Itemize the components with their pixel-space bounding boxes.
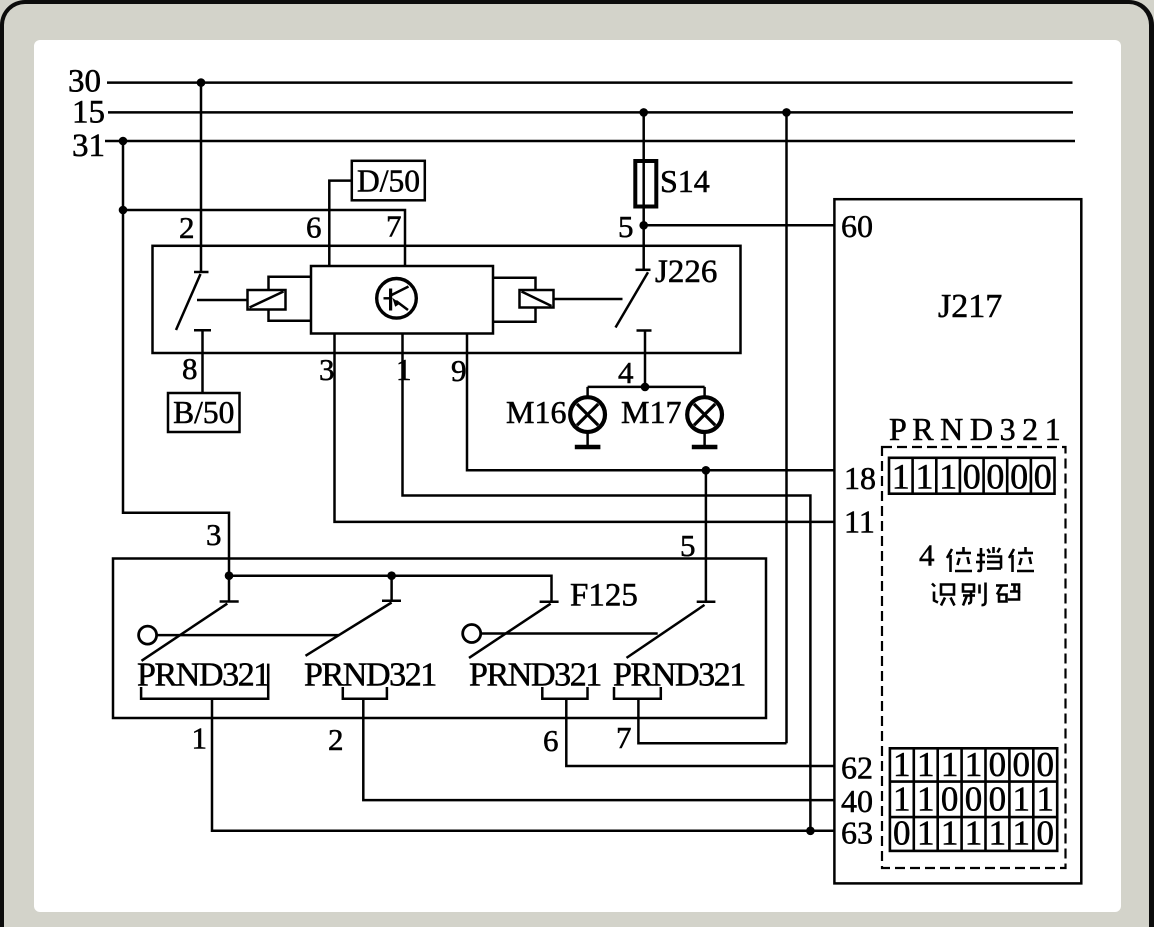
lamp feed wire: [588, 386, 705, 389]
relay box J226: [153, 246, 741, 353]
J217 pin 40 label: [841, 783, 873, 819]
selector switch 3: [463, 602, 658, 658]
node 15 label: [72, 95, 105, 131]
svg-text:P R N D 3 2 1: P R N D 3 2 1: [889, 411, 1060, 447]
svg-text:7: 7: [616, 720, 632, 755]
svg-text:J226: J226: [655, 254, 717, 290]
F125 common top wire: [229, 576, 552, 602]
right switch lever: [616, 272, 649, 327]
svg-text:1: 1: [941, 745, 959, 784]
F125 pin1 label: [192, 721, 208, 756]
wire D/50 to J226 pin6: [329, 181, 352, 266]
node 30 label: [68, 64, 101, 100]
selector switch 4: [627, 602, 716, 658]
junction node at y210: [119, 206, 128, 215]
pin 3 label: [319, 352, 335, 387]
junction sw2 top: [387, 571, 396, 580]
bit table rows 62/40/63: [890, 748, 1057, 851]
fuse S14: [635, 161, 656, 207]
svg-text:9: 9: [451, 353, 467, 388]
junction lamps feed: [641, 383, 650, 392]
svg-text:PRND321: PRND321: [469, 657, 601, 694]
F125 pin2 wire to J217 pin40: [363, 699, 834, 800]
F125 pin1 wire to J217 pin63: [212, 699, 834, 831]
lamp M16: [570, 387, 605, 445]
position bracket 2: [343, 687, 387, 699]
svg-text:B/50: B/50: [173, 395, 234, 430]
bit values row 40: [893, 780, 1054, 819]
wire ground to J226 pin7: [123, 210, 405, 266]
svg-text:6: 6: [306, 210, 322, 245]
svg-text:F125: F125: [570, 578, 638, 614]
svg-text:0: 0: [989, 745, 1007, 784]
left switch contact top: [194, 271, 209, 274]
svg-text:4: 4: [919, 538, 935, 573]
svg-text:8: 8: [182, 351, 198, 386]
wire pin9 to J217 pin18: [467, 334, 834, 471]
bit values row 18: [892, 457, 1052, 497]
svg-text:1: 1: [941, 814, 959, 853]
junction on bus 31: [119, 137, 128, 146]
svg-text:4: 4: [618, 355, 634, 390]
svg-text:6: 6: [543, 723, 559, 758]
svg-text:1: 1: [893, 745, 911, 784]
bus wire 31: [105, 140, 1075, 143]
wire pin4 to lamps: [644, 331, 647, 387]
dashed code block: [882, 447, 1066, 868]
PRND321 label 4: [613, 657, 745, 694]
relay coil right: [520, 290, 554, 308]
svg-text:2: 2: [179, 210, 195, 245]
coil right connection bracket: [493, 278, 536, 322]
position bracket 1: [141, 664, 268, 699]
control unit J217 box: [834, 199, 1081, 883]
node 31 label: [72, 128, 105, 164]
selector switch 1: [139, 576, 340, 661]
hanzi wei1: [947, 547, 972, 572]
relay coil left: [248, 290, 286, 310]
svg-text:1: 1: [965, 745, 983, 784]
svg-text:1: 1: [939, 457, 957, 497]
svg-text:PRND321: PRND321: [613, 657, 745, 694]
svg-text:3: 3: [319, 352, 335, 387]
J217 pin 63 label: [841, 815, 873, 851]
svg-text:5: 5: [618, 209, 634, 244]
junction on bus 15 at S14: [639, 108, 648, 117]
pin 7 label: [386, 209, 402, 244]
svg-text:PRND321: PRND321: [304, 657, 436, 694]
F125 pin6 wire to J217 pin62: [566, 699, 834, 766]
bus wire 15: [108, 111, 1073, 114]
gear code caption line 1: 4: [919, 538, 935, 573]
svg-text:62: 62: [841, 750, 873, 786]
connector B/50: [168, 393, 240, 432]
wire node to F125 pin5: [705, 470, 708, 602]
svg-text:1: 1: [1013, 814, 1031, 853]
left switch contact bottom: [194, 329, 211, 332]
F125 pin6 label: [543, 723, 559, 758]
svg-text:60: 60: [841, 208, 873, 244]
J217 pin 60 label: [841, 208, 873, 244]
gear header P R N D 3 2 1: [889, 411, 1060, 447]
right switch contact top: [636, 269, 651, 272]
hanzi ma3: [996, 585, 1019, 602]
hanzi bie2: [963, 583, 986, 606]
pin 6 label: [306, 210, 322, 245]
right switch actuating wire: [554, 298, 623, 301]
svg-text:0: 0: [986, 457, 1004, 497]
svg-text:0: 0: [1010, 457, 1028, 497]
pin 9 label: [451, 353, 467, 388]
J217 pin 18 label: [844, 460, 876, 496]
wire bus31 down left side: [123, 141, 229, 576]
J217 label: [938, 288, 1002, 325]
wire pin3 to J217 pin11: [335, 334, 835, 522]
svg-text:1: 1: [917, 814, 935, 853]
svg-text:J217: J217: [938, 288, 1002, 325]
PRND321 label 1: [137, 657, 269, 694]
M17 label: [621, 394, 681, 430]
selector switch 2: [306, 576, 402, 656]
wire pin5 to J217 pin60: [644, 224, 835, 227]
F125 pin5 label: [680, 528, 696, 563]
PRND321 label 3: [469, 657, 601, 694]
position bracket 4: [614, 687, 661, 699]
svg-text:D/50: D/50: [357, 164, 420, 199]
left switch actuating wire: [197, 299, 248, 302]
svg-text:2: 2: [328, 722, 344, 757]
svg-text:1: 1: [965, 814, 983, 853]
connector D/50: [352, 161, 425, 201]
S14 label: [660, 163, 710, 199]
M16 label: [506, 394, 566, 430]
J226 label: [655, 254, 717, 290]
control unit inner box: [311, 266, 493, 334]
junction pin5/60: [639, 221, 648, 230]
F125 pin3 label: [206, 517, 222, 552]
svg-text:63: 63: [841, 815, 873, 851]
lamp M17: [687, 387, 722, 445]
bit table row 18: [889, 458, 1055, 494]
F125 label: [570, 578, 638, 614]
svg-text:0: 0: [1013, 745, 1031, 784]
left switch lever: [176, 274, 201, 330]
svg-text:0: 0: [893, 814, 911, 853]
junction pin18 wire / F125 pin5: [702, 466, 711, 475]
pin 1 label: [396, 352, 412, 387]
svg-text:7: 7: [386, 209, 402, 244]
switch module F125 box: [113, 559, 766, 719]
svg-text:0: 0: [1036, 814, 1054, 853]
svg-text:15: 15: [72, 95, 105, 131]
bit values row 63: [893, 814, 1054, 853]
wire bus15 down to F125 pin7 feed: [785, 112, 788, 743]
wire bus15 through fuse to J226 pin5: [642, 112, 645, 269]
svg-text:1: 1: [892, 457, 910, 497]
J217 pin 11 label: [844, 504, 875, 540]
svg-text:PRND321: PRND321: [137, 657, 269, 694]
ground M17: [692, 445, 718, 450]
transistor symbol: [377, 279, 417, 319]
F125 pin7 label: [616, 720, 632, 755]
svg-text:1: 1: [916, 457, 934, 497]
coil left connection bracket: [269, 277, 312, 321]
pin 2 label: [179, 210, 195, 245]
hanzi dang3: [976, 547, 1001, 571]
J217 pin 62 label: [841, 750, 873, 786]
B/50 label: [173, 395, 234, 430]
pin 8 label: [182, 351, 198, 386]
svg-text:1: 1: [192, 721, 208, 756]
junction on bus 15 right: [782, 108, 791, 117]
svg-text:M16: M16: [506, 394, 566, 430]
hanzi shi2: [932, 584, 955, 606]
svg-text:1: 1: [917, 745, 935, 784]
right switch contact bottom: [637, 329, 652, 332]
position bracket 3: [542, 687, 587, 699]
svg-text:11: 11: [844, 504, 875, 540]
bus wire 30: [107, 81, 1073, 84]
wire bus30 to J226 pin2: [200, 83, 203, 272]
wire switch to B/50: [201, 331, 204, 394]
svg-text:18: 18: [844, 460, 876, 496]
F125 pin7 wire to bus15 feed: [638, 699, 786, 744]
junction node 63: [806, 827, 815, 836]
wire pin1 to node63: [403, 334, 811, 831]
svg-text:M17: M17: [621, 394, 681, 430]
bit values row 62: [893, 745, 1054, 784]
D/50 label: [357, 164, 420, 199]
svg-text:S14: S14: [660, 163, 710, 199]
junction on bus 30: [197, 78, 206, 87]
svg-text:31: 31: [72, 128, 105, 164]
pin 4 label: [618, 355, 634, 390]
ground M16: [575, 445, 601, 450]
hanzi wei1 b: [1009, 547, 1034, 572]
junction sw1 top: [225, 571, 234, 580]
svg-text:3: 3: [206, 517, 222, 552]
svg-text:0: 0: [963, 457, 981, 497]
svg-text:0: 0: [1034, 457, 1052, 497]
PRND321 label 2: [304, 657, 436, 694]
svg-text:1: 1: [989, 814, 1007, 853]
F125 pin2 label: [328, 722, 344, 757]
svg-text:0: 0: [1036, 745, 1054, 784]
pin 5 label: [618, 209, 634, 244]
